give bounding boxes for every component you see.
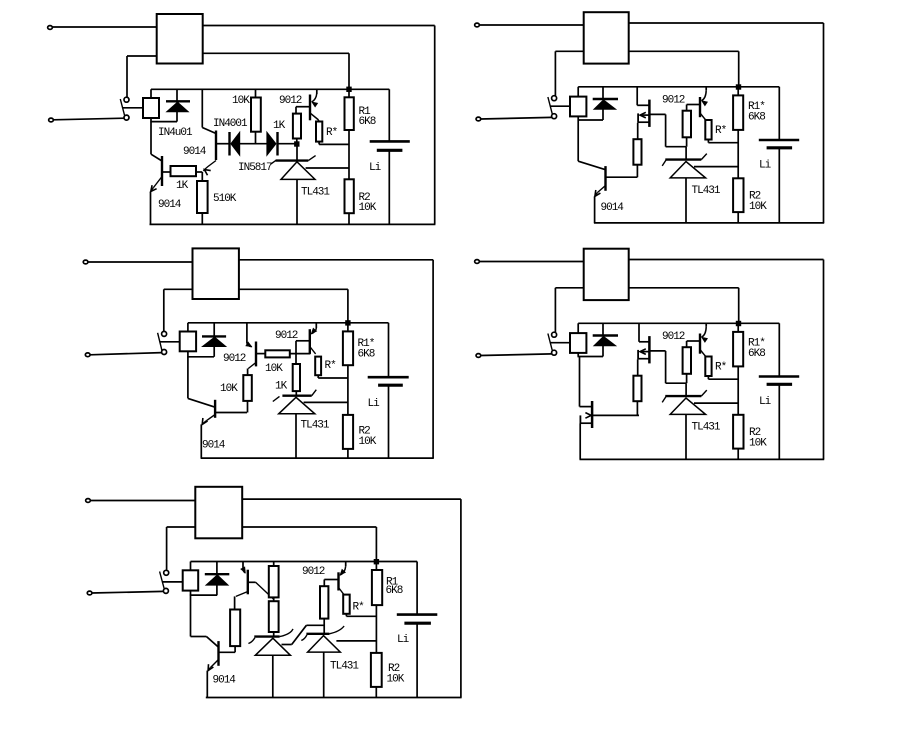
label 10K vertical (220, 383, 238, 395)
transistor Q1 9014 (151, 154, 171, 191)
shunt regulator TL431 (662, 383, 738, 459)
resistor 510K (197, 172, 208, 224)
wire transformer top output (203, 25, 435, 27)
relay coil K4 (570, 323, 586, 356)
svg-text:1K: 1K (176, 180, 189, 192)
wire J3-1 to transformer (88, 261, 193, 263)
label R1* 6K8 (358, 338, 375, 361)
resistor R2 (345, 179, 354, 224)
svg-text:6K8: 6K8 (748, 348, 765, 360)
resistor R1* (343, 323, 353, 415)
wire J4-2 to switch (481, 354, 552, 356)
terminal J4-2 (476, 354, 481, 358)
transistor Q 9012 (687, 87, 708, 120)
label Q1 9014 (158, 199, 182, 211)
transformer T5 (195, 487, 242, 539)
switch S3 (158, 331, 167, 354)
svg-text:9012: 9012 (662, 331, 685, 343)
svg-text:Li: Li (397, 634, 410, 646)
resistor base (683, 347, 691, 383)
wire bottom rail (594, 222, 824, 224)
label TL431 (301, 420, 330, 432)
label IN4001 (213, 118, 248, 130)
resistor base (683, 111, 691, 147)
label Q 9012 (662, 95, 685, 107)
wire transformer to switch (555, 288, 583, 333)
label Q6 9012 (275, 330, 298, 342)
wire switch to relay coil (550, 105, 570, 107)
transistor Q2 9014 (202, 89, 229, 175)
diode IN5817 (267, 132, 297, 156)
label R2 10K (749, 191, 767, 214)
shunt regulator U1 (248, 629, 293, 698)
svg-text:9012: 9012 (223, 353, 246, 365)
transistor Q3 9012 (296, 89, 319, 121)
terminal J3-1 (83, 260, 88, 264)
resistor 10K vertical (243, 375, 252, 412)
wire relay bottom joint (190, 595, 217, 636)
resistor B2 (269, 597, 279, 636)
battery Li (759, 87, 799, 223)
transistor Q7 9014 (207, 641, 235, 697)
resistor R1 (345, 89, 354, 179)
svg-text:9014: 9014 (183, 146, 207, 158)
label 10K (232, 95, 250, 107)
label Q9 9012 (302, 566, 325, 578)
wire right edge (460, 499, 462, 697)
resistor 10K (251, 89, 261, 143)
wire transformer lower output (629, 288, 739, 324)
svg-text:9012: 9012 (662, 95, 685, 107)
transistor Q 9014 (595, 166, 638, 223)
wire switch to relay coil (123, 107, 143, 109)
svg-text:Li: Li (369, 162, 382, 174)
transistor Q6 9012 (310, 323, 317, 354)
transistor Q 9012 (687, 323, 708, 356)
label Li (369, 162, 382, 174)
resistor R* (315, 357, 348, 378)
wire bottom rail (201, 457, 434, 459)
wire Q1 emitter to bottom (150, 192, 152, 225)
switch S2 (548, 96, 557, 119)
label TL431 (330, 661, 359, 673)
wire 10K to Q6 base loop (296, 341, 310, 354)
resistor B1 (269, 562, 279, 598)
node rail junction (347, 87, 351, 91)
wire transformer lower output (203, 53, 349, 89)
wire bottom rail (580, 458, 825, 460)
svg-text:510K: 510K (213, 193, 237, 205)
resistor mid (633, 376, 641, 416)
svg-text:9014: 9014 (202, 440, 226, 452)
terminal J5-2 (87, 591, 92, 595)
transistor Q5 9014 (188, 398, 247, 458)
label Q 9014 (601, 202, 625, 214)
wire transformer to switch (167, 527, 196, 571)
label R* (326, 127, 338, 139)
wire relay bottom joint (578, 356, 604, 358)
wire inner top rail (578, 322, 779, 324)
resistor R1* (733, 87, 743, 178)
wire switch to relay coil (162, 581, 183, 583)
resistor R2 (371, 653, 382, 698)
wire J2-2 to switch (481, 117, 552, 119)
svg-text:Li: Li (759, 396, 772, 408)
relay coil K2 (570, 87, 586, 120)
terminal J1-1 (48, 26, 53, 30)
wire transformer to switch (127, 56, 157, 97)
battery Li (759, 323, 799, 459)
terminal J2-1 (475, 23, 480, 27)
svg-text:R*: R* (353, 602, 365, 614)
wire relay bottom joint (578, 119, 604, 121)
svg-text:Li: Li (759, 160, 772, 172)
wire switch to relay coil (550, 342, 570, 344)
wire right edge (432, 260, 434, 458)
resistor R* (343, 595, 376, 617)
svg-text:9012: 9012 (302, 566, 325, 578)
wire relay bottom joint (150, 122, 177, 155)
svg-text:6K8: 6K8 (748, 112, 765, 124)
svg-text:IN5817: IN5817 (238, 162, 272, 174)
label Li (759, 160, 772, 172)
label Q4 9012 (223, 353, 246, 365)
label 1K (275, 381, 288, 393)
svg-text:10K: 10K (359, 202, 377, 214)
transformer T1 (157, 14, 203, 64)
terminal J1-2 (49, 118, 54, 122)
svg-text:TL431: TL431 (692, 422, 721, 434)
switch S5 (160, 570, 169, 593)
resistor 10K horizontal (265, 350, 310, 357)
diode IN4001 (230, 132, 268, 156)
label Q5 9014 (202, 440, 226, 452)
switch S4 (548, 332, 557, 355)
relay coil K3 (180, 323, 196, 357)
resistor R* (316, 122, 349, 145)
terminal J5-1 (86, 499, 91, 503)
label Li (368, 398, 381, 410)
wire transformer top output (629, 22, 824, 24)
label 10K horizontal (265, 363, 283, 375)
terminal J4-1 (475, 260, 480, 264)
resistor R* (705, 120, 738, 143)
label 510K (213, 193, 237, 205)
wire bottom rail (150, 223, 436, 225)
wire transformer lower output (629, 51, 739, 87)
svg-text:TL431: TL431 (692, 185, 721, 197)
node rail junction (374, 560, 378, 564)
label Li (397, 634, 410, 646)
wire transformer to switch (555, 51, 583, 96)
label 1K vertical (273, 120, 286, 132)
relay coil K5 (183, 562, 199, 596)
wire to Q7 (191, 637, 219, 647)
shunt regulator TL431 (273, 390, 348, 458)
shunt regulator U2 TL431 (301, 626, 376, 698)
relay coil K1 (143, 89, 159, 121)
diode D2 (593, 87, 618, 120)
label R2 10K (387, 663, 405, 686)
wire inner top rail (578, 86, 779, 88)
svg-text:1K: 1K (273, 120, 286, 132)
label Q2 9014 (183, 146, 207, 158)
wire transformer to switch (164, 289, 193, 331)
label R2 10K (749, 427, 767, 450)
shunt regulator TL431 (271, 144, 349, 224)
MOSFET Q upper (637, 87, 686, 147)
svg-text:10K: 10K (387, 674, 405, 686)
resistor R2 (343, 415, 353, 458)
wire J2-1 to transformer (479, 24, 584, 26)
label Q7 9014 (213, 675, 237, 687)
svg-text:R*: R* (715, 125, 727, 137)
svg-text:TL431: TL431 (330, 661, 359, 673)
svg-text:9012: 9012 (279, 95, 302, 107)
node rail junction (736, 321, 740, 325)
svg-text:10K: 10K (749, 201, 767, 213)
MOSFET Q upper (638, 323, 686, 383)
resistor 1K (293, 354, 300, 396)
node rail junction (736, 85, 740, 89)
label Li (759, 396, 772, 408)
wire J3-2 to switch (90, 353, 162, 355)
wire transformer lower output (239, 289, 348, 323)
label R2 10K (359, 192, 377, 214)
label 1K (176, 180, 189, 192)
wire right edge (823, 260, 825, 460)
wire inner top rail (188, 322, 389, 324)
label R* (715, 362, 727, 374)
diode D3 (202, 323, 226, 357)
node 1K bottom junction (295, 142, 299, 146)
resistor R* (705, 357, 738, 380)
resistor R2 (733, 415, 743, 460)
svg-text:IN4u01: IN4u01 (158, 127, 193, 139)
resistor A (230, 610, 240, 653)
resistor R1 (372, 562, 382, 653)
label R1 6K8 (359, 106, 376, 128)
transformer T2 (584, 12, 629, 63)
resistor 1K vertical (293, 114, 301, 144)
wire inner top rail (151, 88, 389, 90)
resistor R2 (733, 178, 743, 223)
svg-text:R*: R* (326, 127, 338, 139)
label R2 10K (359, 426, 377, 449)
svg-text:TL431: TL431 (301, 420, 330, 432)
svg-text:9014: 9014 (213, 675, 237, 687)
wire J4-1 to transformer (479, 261, 584, 263)
svg-text:R*: R* (325, 360, 337, 372)
svg-text:10K: 10K (359, 436, 377, 448)
resistor C (320, 586, 328, 634)
label R* (353, 602, 365, 614)
wire transformer top output (242, 498, 461, 500)
svg-text:TL431: TL431 (301, 187, 330, 199)
svg-text:IN4001: IN4001 (213, 118, 248, 130)
resistor 1K horizontal (171, 166, 203, 176)
label Q 9012 (662, 331, 685, 343)
svg-text:9014: 9014 (158, 199, 182, 211)
wire J5-1 to transformer (90, 500, 195, 502)
battery Li (368, 323, 409, 458)
transformer T3 (193, 248, 239, 299)
transistor Q4 9012 (246, 323, 265, 375)
diode IN4u01 (166, 89, 190, 121)
svg-text:10K: 10K (749, 438, 767, 450)
label TL431 (692, 422, 721, 434)
wire right edge (434, 26, 436, 225)
label IN4u01 (158, 127, 193, 139)
resistor R1* (733, 324, 743, 415)
svg-text:R*: R* (715, 362, 727, 374)
label R1 6K8 (386, 577, 403, 598)
battery Li (370, 89, 410, 224)
wire U1 ref to U2 cathode (282, 625, 324, 644)
svg-text:1K: 1K (275, 381, 288, 393)
label TL431 (692, 185, 721, 197)
wire J1-1 to transformer (52, 26, 157, 28)
transistor Q8 PNP (235, 562, 274, 610)
node rail junction (346, 321, 350, 325)
label R* (325, 360, 337, 372)
svg-text:6K8: 6K8 (359, 116, 376, 128)
wire J1-2 to switch (53, 118, 124, 120)
label IN5817 (238, 162, 272, 174)
diode D5 (205, 562, 230, 596)
diode D4 (593, 323, 618, 356)
battery Li (397, 562, 438, 698)
svg-text:10K: 10K (232, 95, 250, 107)
wire transformer lower output (242, 527, 376, 562)
label R1* 6K8 (748, 338, 765, 361)
label R1* 6K8 (748, 101, 765, 124)
svg-text:Li: Li (368, 398, 381, 410)
svg-text:10K: 10K (220, 383, 238, 395)
label TL431 (301, 187, 330, 199)
wire transformer top output (239, 259, 433, 261)
wire right edge (823, 23, 825, 223)
shunt regulator TL431 (662, 147, 738, 223)
label Q3 9012 (279, 95, 302, 107)
transformer T4 (584, 249, 629, 300)
label R* (715, 125, 727, 137)
resistor mid (633, 139, 641, 177)
wire relay bottom joint (187, 357, 214, 399)
terminal J3-2 (85, 353, 90, 357)
wire switch to relay coil (160, 341, 180, 343)
svg-text:6K8: 6K8 (358, 349, 375, 361)
wire inner top rail (191, 561, 418, 563)
svg-text:9014: 9014 (601, 202, 625, 214)
svg-text:10K: 10K (265, 363, 283, 375)
transistor Q9 9012 (324, 562, 345, 595)
svg-text:9012: 9012 (275, 330, 298, 342)
MOSFET Q lower (580, 357, 640, 460)
switch S1 (120, 97, 129, 120)
wire transformer top output (629, 259, 824, 261)
wire J5-2 to switch (92, 591, 164, 593)
wire bottom rail (206, 697, 462, 699)
terminal J2-2 (476, 117, 481, 121)
svg-text:6K8: 6K8 (386, 585, 403, 597)
wire relay to Q 9014 (578, 120, 605, 170)
